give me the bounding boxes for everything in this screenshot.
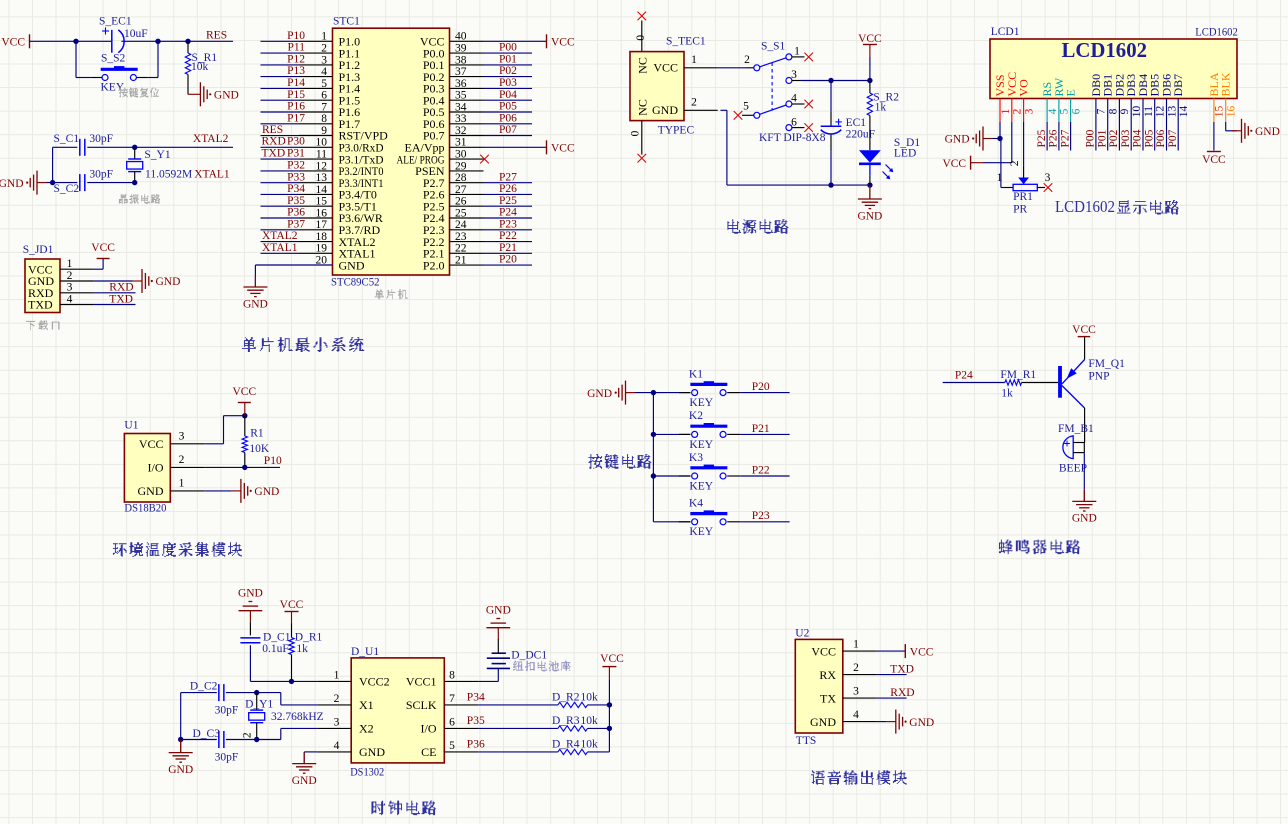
pin 3 RXD xyxy=(28,282,94,300)
wire xyxy=(94,292,136,294)
wire xyxy=(588,751,610,753)
wire xyxy=(94,304,136,306)
svg-text:1: 1 xyxy=(1000,108,1012,114)
ground xyxy=(886,710,934,734)
svg-text:P35: P35 xyxy=(287,195,305,207)
svg-text:KEY: KEY xyxy=(101,82,125,94)
wire xyxy=(653,475,690,477)
svg-text:VCC: VCC xyxy=(1202,154,1226,166)
pin 22 P2.1 xyxy=(423,243,484,261)
svg-text:D_C2: D_C2 xyxy=(190,681,218,693)
junction xyxy=(178,737,183,742)
junction xyxy=(132,145,137,150)
junction xyxy=(185,39,190,44)
svg-text:P04: P04 xyxy=(499,89,517,101)
svg-text:VCC: VCC xyxy=(280,599,304,611)
svg-text:4: 4 xyxy=(791,93,797,105)
svg-text:P01: P01 xyxy=(499,54,517,66)
pin 3 X2 xyxy=(317,716,373,735)
svg-text:KEY: KEY xyxy=(689,397,713,409)
junction xyxy=(289,679,294,684)
svg-text:16: 16 xyxy=(1226,106,1238,118)
svg-text:P33: P33 xyxy=(287,171,305,183)
svg-text:R1: R1 xyxy=(250,427,264,439)
pin 8 P1.7 xyxy=(299,113,360,131)
svg-text:P2.0: P2.0 xyxy=(423,258,445,272)
svg-text:2: 2 xyxy=(1009,160,1021,166)
svg-text:GND: GND xyxy=(0,178,24,190)
wire xyxy=(484,52,533,54)
svg-text:S_C2: S_C2 xyxy=(54,183,80,195)
pin 35 P0.4 xyxy=(423,90,484,108)
resistor FM_R1 xyxy=(1000,369,1058,399)
svg-text:P10: P10 xyxy=(264,455,282,467)
svg-text:9: 9 xyxy=(321,125,327,137)
svg-text:P05: P05 xyxy=(1143,129,1155,147)
svg-text:11: 11 xyxy=(1143,106,1155,117)
wire (VSS to ground) xyxy=(999,122,1001,139)
svg-text:RXD: RXD xyxy=(109,282,133,294)
svg-text:11.0592M: 11.0592M xyxy=(145,168,192,180)
pin 4 GND xyxy=(810,709,877,729)
svg-text:VCC: VCC xyxy=(811,644,836,658)
pin 37 P0.2 xyxy=(423,66,484,84)
svg-text:GND: GND xyxy=(1072,513,1097,525)
junction xyxy=(155,39,160,44)
svg-text:VCC2: VCC2 xyxy=(359,675,390,689)
wire xyxy=(877,650,906,652)
wire xyxy=(478,727,558,729)
pin 2 GND xyxy=(28,270,94,288)
svg-text:CE: CE xyxy=(421,745,436,759)
caption 电源电路 xyxy=(727,220,788,234)
svg-text:2: 2 xyxy=(321,43,327,55)
power port VCC (reset net) xyxy=(29,34,31,48)
pin 6 P1.5 xyxy=(299,90,360,108)
junction xyxy=(254,690,259,695)
svg-text:K4: K4 xyxy=(689,498,703,510)
svg-text:30: 30 xyxy=(455,149,467,161)
svg-text:LCD1602: LCD1602 xyxy=(1062,38,1148,62)
capacitor S_C1 xyxy=(54,133,114,156)
wire xyxy=(226,692,281,694)
power port VCC xyxy=(280,599,304,624)
svg-text:P15: P15 xyxy=(287,89,305,101)
svg-text:P05: P05 xyxy=(499,101,517,113)
svg-text:DS1302: DS1302 xyxy=(350,766,384,778)
svg-text:U1: U1 xyxy=(124,420,138,432)
wire xyxy=(484,146,547,148)
crystal S_Y1 xyxy=(127,147,192,182)
svg-text:P34: P34 xyxy=(467,692,485,704)
wire xyxy=(47,182,78,184)
caption 按键电路 xyxy=(588,455,651,469)
svg-text:14: 14 xyxy=(1178,106,1190,118)
junction xyxy=(651,390,656,395)
lcd LCD1 body xyxy=(990,39,1237,99)
svg-text:31: 31 xyxy=(455,137,467,149)
svg-text:4: 4 xyxy=(334,740,340,752)
svg-text:P00: P00 xyxy=(499,42,517,54)
switch S_S2 (KEY) xyxy=(91,52,147,93)
junction xyxy=(242,465,247,470)
svg-text:X2: X2 xyxy=(359,722,374,736)
svg-text:0: 0 xyxy=(635,35,647,41)
wire xyxy=(261,52,300,54)
svg-text:XTAL2: XTAL2 xyxy=(262,230,298,242)
LED S_D1 xyxy=(859,137,920,185)
ground xyxy=(857,185,882,222)
pin 36 P0.3 xyxy=(423,78,484,96)
svg-text:0: 0 xyxy=(629,130,641,136)
junction xyxy=(254,737,259,742)
svg-text:1: 1 xyxy=(334,669,340,681)
wire xyxy=(869,57,871,81)
svg-text:VCC: VCC xyxy=(139,437,164,451)
ground xyxy=(188,82,239,106)
svg-text:18: 18 xyxy=(316,231,328,243)
pin 7 P1.6 xyxy=(299,101,360,119)
svg-text:P23: P23 xyxy=(499,218,517,230)
resistor S_R2 xyxy=(867,81,899,151)
pin 29 PSEN xyxy=(415,160,483,178)
no-ERC marker (pin 30) xyxy=(480,155,489,164)
svg-text:GND: GND xyxy=(138,484,164,498)
svg-text:S_TEC1: S_TEC1 xyxy=(666,35,706,47)
wire xyxy=(181,739,217,741)
svg-text:1: 1 xyxy=(691,54,697,66)
svg-text:2: 2 xyxy=(241,732,253,738)
svg-text:DS18B20: DS18B20 xyxy=(124,502,166,514)
junction xyxy=(867,78,872,83)
svg-text:VCC: VCC xyxy=(653,61,678,75)
svg-text:12: 12 xyxy=(1155,106,1167,118)
svg-text:7: 7 xyxy=(449,693,455,705)
wire xyxy=(943,382,1005,384)
junction xyxy=(651,432,656,437)
svg-text:P03: P03 xyxy=(499,77,517,89)
module U2 body xyxy=(795,639,843,733)
pin 1 VCC xyxy=(811,639,876,659)
svg-text:S_C1: S_C1 xyxy=(54,133,80,145)
svg-text:6: 6 xyxy=(791,116,797,128)
wire xyxy=(261,123,300,125)
wire xyxy=(718,67,747,69)
svg-text:P32: P32 xyxy=(287,160,305,172)
power port VCC xyxy=(858,33,882,57)
svg-text:5: 5 xyxy=(321,78,327,90)
wire (gnd bus) xyxy=(635,392,653,394)
wire xyxy=(261,87,300,89)
svg-text:P16: P16 xyxy=(287,101,305,113)
wire xyxy=(484,241,533,243)
svg-text:P02: P02 xyxy=(1108,129,1120,147)
ground xyxy=(168,740,193,776)
svg-text:6: 6 xyxy=(1070,108,1082,114)
pin 11 P3.1/TxD xyxy=(299,149,384,167)
svg-text:P06: P06 xyxy=(499,112,517,124)
wire xyxy=(52,147,54,182)
label 按键复位 xyxy=(119,88,159,97)
pin 14 DB7 xyxy=(1171,74,1190,122)
buzzer FM_B1 (BEEP) xyxy=(1058,423,1094,475)
wire xyxy=(484,135,533,137)
wire xyxy=(1166,122,1168,151)
pin 9 DB2 xyxy=(1112,74,1131,122)
wire xyxy=(180,693,182,740)
pin 1 VCC xyxy=(653,54,717,74)
svg-text:P30: P30 xyxy=(287,136,305,148)
wire xyxy=(261,99,300,101)
svg-text:P20: P20 xyxy=(752,381,770,393)
svg-text:8: 8 xyxy=(1108,108,1120,114)
svg-text:3: 3 xyxy=(179,431,185,443)
wire xyxy=(1084,408,1086,443)
svg-text:XTAL1: XTAL1 xyxy=(194,168,230,180)
wire xyxy=(653,521,690,523)
wire xyxy=(250,680,317,682)
pin 10 P3.0/RxD xyxy=(299,137,384,155)
power port VCC xyxy=(600,653,624,680)
wire (pin20 to ground) xyxy=(255,264,332,266)
svg-text:GND: GND xyxy=(587,388,612,400)
resistor D_R4 10k xyxy=(552,739,598,755)
wire xyxy=(1130,122,1132,151)
power port VCC xyxy=(942,156,983,170)
power port VCC xyxy=(546,34,548,48)
svg-text:P04: P04 xyxy=(1132,129,1144,147)
svg-text:P36: P36 xyxy=(467,739,485,751)
svg-text:34: 34 xyxy=(455,101,467,113)
svg-text:P12: P12 xyxy=(287,54,305,66)
svg-text:12: 12 xyxy=(316,160,328,172)
svg-text:KEY: KEY xyxy=(689,439,713,451)
power port VCC xyxy=(91,242,115,258)
wire xyxy=(1107,122,1109,151)
pin 5 CE xyxy=(421,740,478,759)
svg-text:10K: 10K xyxy=(249,443,270,455)
svg-text:FM_Q1: FM_Q1 xyxy=(1088,358,1125,370)
pin 12 DB5 xyxy=(1148,74,1167,122)
svg-text:P26: P26 xyxy=(1048,129,1060,147)
pin 3 VCC xyxy=(139,431,204,452)
svg-text:TXD: TXD xyxy=(109,293,133,305)
wire xyxy=(261,241,300,243)
svg-text:KEY: KEY xyxy=(689,480,713,492)
label 单片机 xyxy=(375,290,408,299)
svg-text:S_S1: S_S1 xyxy=(761,40,786,52)
svg-text:2: 2 xyxy=(691,97,697,109)
wire xyxy=(1083,443,1085,453)
svg-text:32.768kHZ: 32.768kHZ xyxy=(271,711,324,723)
pin 5 P1.4 xyxy=(299,78,360,96)
junction xyxy=(50,180,55,185)
wire xyxy=(94,268,104,270)
svg-text:EC1: EC1 xyxy=(846,117,867,129)
wire xyxy=(801,80,870,82)
svg-text:GND: GND xyxy=(254,486,279,498)
svg-text:5: 5 xyxy=(743,101,749,113)
pin 16 BLK xyxy=(1219,72,1238,122)
wire xyxy=(653,433,690,435)
wire xyxy=(484,205,533,207)
svg-text:5: 5 xyxy=(1059,108,1071,114)
svg-text:I/O: I/O xyxy=(148,461,164,475)
svg-text:GND: GND xyxy=(1255,126,1280,138)
switch K1 (KEY) xyxy=(679,368,740,409)
wire (GND rail) xyxy=(721,109,727,111)
svg-text:3: 3 xyxy=(853,686,859,698)
svg-text:GND: GND xyxy=(292,775,317,787)
svg-text:6: 6 xyxy=(449,716,455,728)
pin 1 VCC2 xyxy=(317,669,389,688)
no-ERC marker xyxy=(804,53,813,62)
pin 0 (bottom) xyxy=(629,121,642,155)
svg-text:1k: 1k xyxy=(1001,387,1013,399)
wire xyxy=(1154,122,1156,151)
svg-text:P14: P14 xyxy=(287,77,305,89)
wire xyxy=(484,229,533,231)
label 晶振电路 xyxy=(119,195,160,204)
switch S_S1 (KFT DIP-8X8) xyxy=(742,40,826,144)
svg-text:P25: P25 xyxy=(499,195,517,207)
pin 31 EA/Vpp xyxy=(405,137,484,155)
svg-text:27: 27 xyxy=(455,184,467,196)
wire xyxy=(877,721,887,723)
capacitor S_EC1 xyxy=(99,15,148,52)
junction xyxy=(997,136,1002,141)
wire xyxy=(147,77,158,79)
svg-text:FM_B1: FM_B1 xyxy=(1058,423,1094,435)
svg-text:P17: P17 xyxy=(287,112,305,124)
svg-text:P24: P24 xyxy=(499,207,517,219)
pin 5 RW xyxy=(1052,77,1071,122)
caption 蜂鸣器电路 xyxy=(999,540,1080,554)
svg-text:GND: GND xyxy=(168,764,193,776)
wire xyxy=(1095,122,1097,151)
sensor U1 body xyxy=(124,434,170,503)
svg-text:4: 4 xyxy=(67,293,73,305)
pin 24 P2.3 xyxy=(423,219,484,237)
power port VCC xyxy=(1072,324,1096,337)
power port VCC xyxy=(1207,151,1221,153)
junction xyxy=(867,182,872,187)
svg-text:S_JD1: S_JD1 xyxy=(23,244,54,256)
svg-text:K2: K2 xyxy=(689,410,703,422)
svg-text:38: 38 xyxy=(455,54,467,66)
svg-text:P37: P37 xyxy=(287,218,305,230)
junction xyxy=(607,726,612,731)
svg-text:RXD: RXD xyxy=(262,136,286,148)
wire xyxy=(204,466,280,468)
svg-text:0.1uF: 0.1uF xyxy=(262,643,289,655)
caption LCD1602显示电路 xyxy=(1055,197,1179,216)
switch K2 (KEY) xyxy=(679,410,740,451)
pin 2 P1.1 xyxy=(299,43,360,61)
wire xyxy=(204,443,223,445)
svg-text:1: 1 xyxy=(67,258,73,270)
rtc D_U1 body xyxy=(351,658,444,763)
pin 20 GND xyxy=(316,255,365,273)
wire xyxy=(261,135,300,137)
transistor FM_Q1 (PNP) xyxy=(1058,358,1125,408)
svg-text:P22: P22 xyxy=(499,230,517,242)
pin 12 P3.2/INT0 xyxy=(299,160,384,178)
svg-text:29: 29 xyxy=(455,160,467,172)
svg-text:30pF: 30pF xyxy=(215,705,239,717)
svg-text:GND: GND xyxy=(238,588,263,600)
ground xyxy=(945,127,993,151)
svg-text:2: 2 xyxy=(334,693,340,705)
resistor R1 xyxy=(242,416,270,468)
resistor D_R3 10k xyxy=(552,715,598,731)
pin 34 P0.5 xyxy=(423,101,484,119)
pin 15 P3.5/T1 xyxy=(299,196,377,214)
pin 2 VCC xyxy=(1005,72,1024,122)
svg-text:37: 37 xyxy=(455,66,467,78)
svg-text:P10: P10 xyxy=(287,30,305,42)
wire xyxy=(478,680,498,682)
svg-text:17: 17 xyxy=(316,219,328,231)
wire xyxy=(484,217,533,219)
svg-text:10k: 10k xyxy=(191,61,209,73)
svg-text:P13: P13 xyxy=(287,65,305,77)
ground xyxy=(0,171,47,195)
pin 8 VCC1 xyxy=(406,669,478,688)
wire xyxy=(478,704,558,706)
svg-text:DB7: DB7 xyxy=(1171,74,1185,97)
pin 1 P1.0 xyxy=(299,31,360,49)
junction xyxy=(73,39,78,44)
wire xyxy=(877,697,907,699)
wire xyxy=(877,674,907,676)
svg-text:P24: P24 xyxy=(955,369,973,381)
svg-text:19: 19 xyxy=(316,243,328,255)
pin 2 I/O xyxy=(148,454,205,475)
pin 33 P0.6 xyxy=(423,113,484,131)
wire xyxy=(261,229,300,231)
junction xyxy=(828,78,833,83)
connector S_JD1 body xyxy=(25,259,60,313)
svg-text:E: E xyxy=(1064,89,1078,96)
svg-text:P25: P25 xyxy=(1036,129,1048,147)
svg-text:1: 1 xyxy=(179,478,185,490)
label 下载口 xyxy=(26,321,59,330)
wire xyxy=(484,123,533,125)
wire xyxy=(653,392,690,394)
svg-text:FM_R1: FM_R1 xyxy=(1000,369,1036,381)
svg-text:14: 14 xyxy=(316,184,328,196)
caption 环境温度采集模块 xyxy=(113,543,242,557)
svg-text:D_R4: D_R4 xyxy=(552,739,580,751)
svg-text:GND: GND xyxy=(486,605,511,617)
svg-text:VCC: VCC xyxy=(600,653,624,665)
pin 21 P2.0 xyxy=(423,255,484,273)
svg-text:P06: P06 xyxy=(1155,129,1167,147)
ground xyxy=(243,276,268,311)
svg-text:15: 15 xyxy=(316,196,328,208)
wire xyxy=(484,40,547,42)
capacitor S_C2 xyxy=(54,168,114,194)
ground xyxy=(486,605,511,640)
pin 14 P3.4/T0 xyxy=(299,184,377,202)
svg-text:GND: GND xyxy=(652,103,678,117)
pin 0 (top) xyxy=(635,21,647,52)
svg-text:D_C3: D_C3 xyxy=(193,728,221,740)
wire (VCC rail) xyxy=(608,680,610,752)
no-ERC marker xyxy=(734,111,743,120)
wire xyxy=(261,64,300,66)
